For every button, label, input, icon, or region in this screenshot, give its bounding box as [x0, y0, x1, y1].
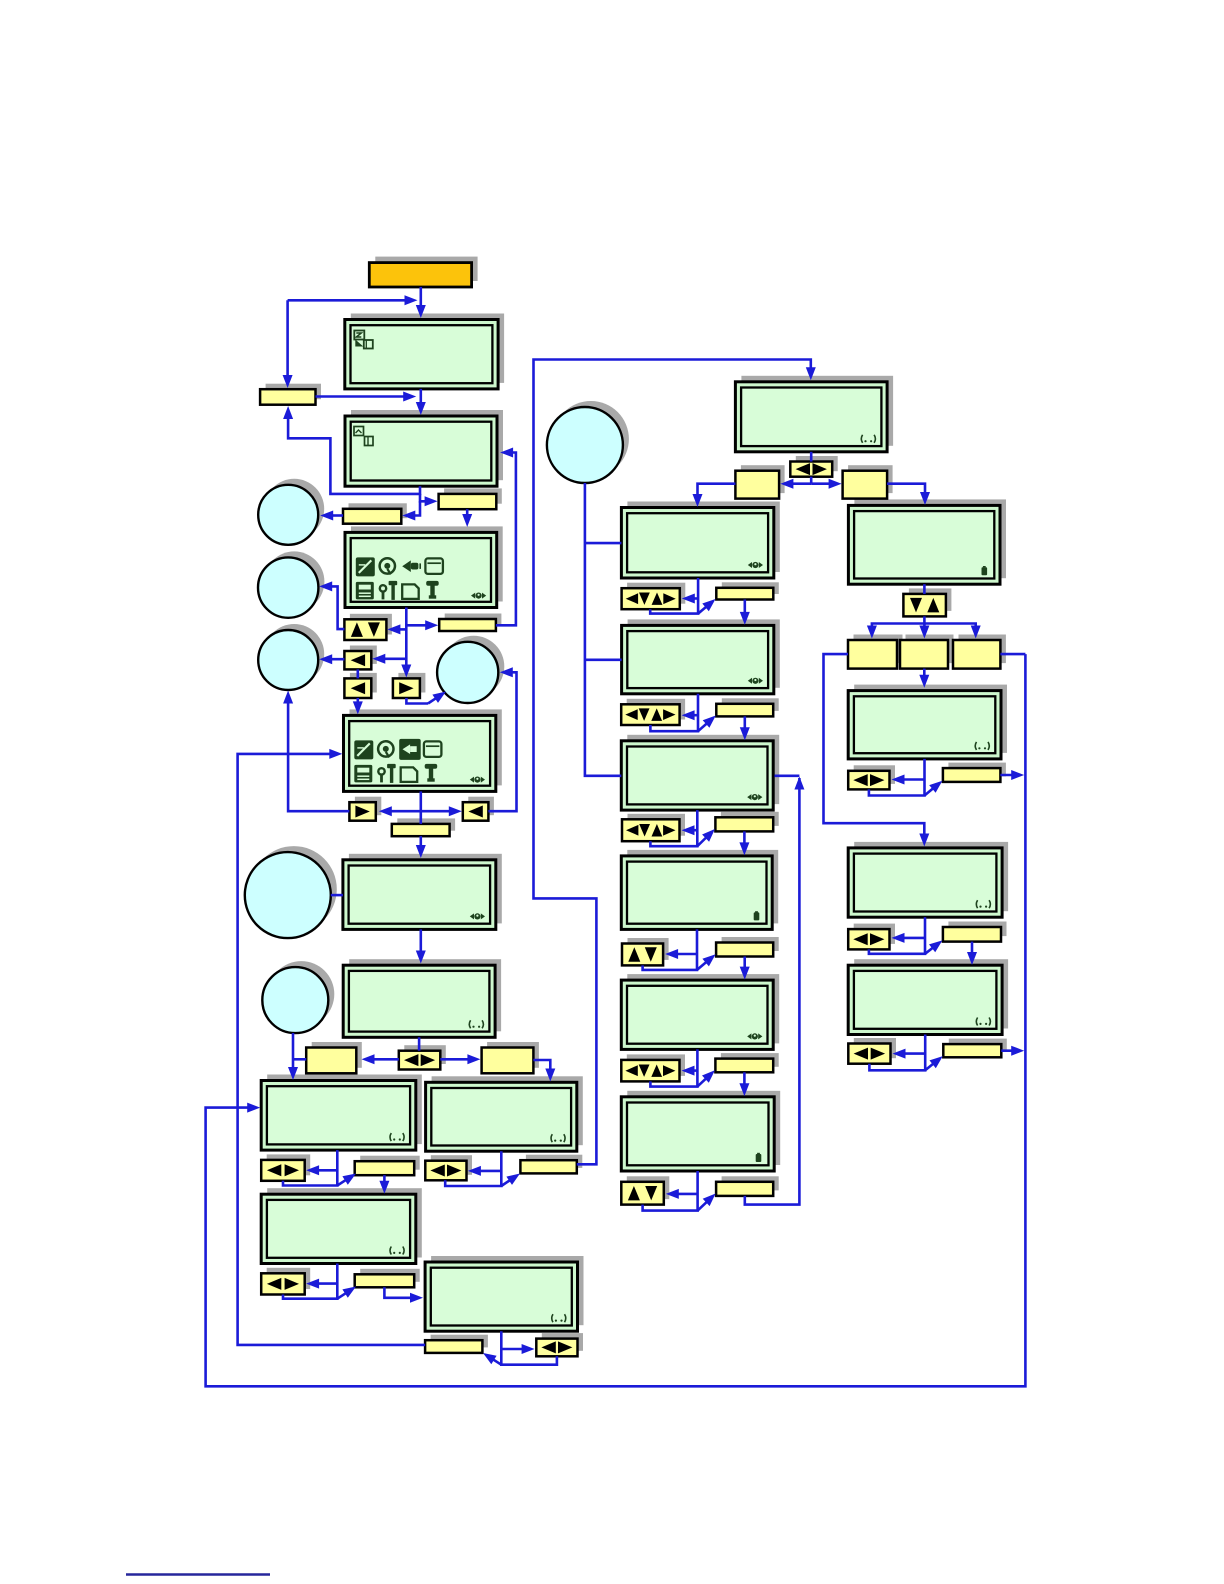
wire G2 down to OK: [419, 791, 422, 824]
button 4way under M1: [622, 583, 686, 610]
wire power-on to T1: [419, 287, 422, 306]
button lr under R4: [848, 1038, 896, 1064]
wire L1b hook down: [445, 1151, 501, 1186]
button box1 under R1: [848, 635, 903, 669]
button left 1: [344, 646, 376, 670]
wire L1b to lr: [474, 1170, 501, 1173]
wire box1R loop to R3: [824, 654, 925, 840]
wire corner down to button TL: [286, 300, 289, 376]
power-on box: [369, 257, 477, 287]
screen M3: [621, 735, 779, 810]
screen L3: [425, 1256, 583, 1331]
button OK under M3: [715, 812, 778, 832]
wire L1b OK loop to screen T: [534, 360, 811, 1165]
wire M5 down: [650, 1049, 697, 1086]
wire left button to circle 4: [488, 672, 516, 811]
wire bottom loop to L1: [206, 654, 1026, 1386]
wire circle B to M screens: [585, 483, 621, 776]
wire L1 to lr: [313, 1169, 337, 1172]
button lr under L3: [536, 1333, 583, 1356]
button box1 under B: [306, 1042, 362, 1073]
wire right button 1 hook to circle 4: [406, 698, 428, 704]
button down-up under R1: [903, 588, 951, 616]
button OK under L1b: [520, 1155, 582, 1174]
wire box2R to R2: [923, 669, 926, 679]
wire R3 OK to R4: [971, 942, 974, 958]
wire M3 OK to M4: [743, 831, 746, 848]
wire T2 junction to right box: [420, 494, 430, 501]
wire R2 OK to loop: [1000, 774, 1017, 777]
button OK under R2: [943, 763, 1006, 782]
wire L2 OK to L3: [384, 1287, 415, 1298]
button OK under G1: [439, 614, 501, 632]
wire M2 diag: [698, 723, 707, 731]
wire circle 6 to L1: [292, 1033, 295, 1073]
button lr under T: [790, 456, 837, 477]
wire L2 diag: [337, 1293, 346, 1299]
button OK under M5: [715, 1053, 778, 1072]
button box3 under R1: [953, 635, 1006, 669]
wire T box left to M1: [698, 484, 736, 500]
wire R1 du split: [872, 616, 925, 630]
screen R2: [848, 685, 1007, 759]
button left under G2: [463, 797, 494, 821]
wire M4 diag: [697, 962, 707, 970]
wire R4 OK to loop: [1001, 1049, 1017, 1052]
button right under G2: [349, 797, 381, 821]
wire M6 down: [643, 1171, 698, 1211]
button 4way under M2: [621, 699, 685, 725]
button OK under R4: [943, 1039, 1007, 1058]
wire circle B branch M1: [585, 542, 622, 545]
circle 2: [258, 551, 324, 617]
screen R3: [848, 842, 1008, 917]
wire R3 down: [869, 917, 925, 954]
button TL (C-key): [260, 384, 321, 405]
screen L1b: [426, 1076, 583, 1151]
wire L3 diag: [493, 1359, 502, 1365]
wire G2 OK to screen A: [419, 836, 422, 849]
wire right box to G1: [466, 509, 469, 519]
wire G2 to right button: [385, 810, 421, 813]
wire M5 to button: [689, 1069, 698, 1072]
circle 5 (large): [245, 846, 337, 938]
wire M2 OK to M3: [743, 716, 746, 732]
button OK under L3: [425, 1335, 488, 1353]
wire G1 to up-down button: [394, 628, 406, 631]
wire M1 down: [650, 578, 698, 614]
wire box1 to circle6 line: [293, 1058, 306, 1061]
wire L1b diag: [501, 1180, 510, 1186]
wire return corner to T1 line: [288, 299, 411, 302]
screen M4: [621, 850, 778, 930]
wire lr to box2: [440, 1058, 473, 1061]
wire A to B: [419, 929, 422, 954]
wire left button 1 to circle 3: [327, 658, 344, 661]
screen M5: [621, 974, 779, 1049]
wire R1 down to du: [923, 584, 926, 594]
screen T1 (startup): [345, 314, 504, 389]
wire L3 to lr: [501, 1348, 528, 1351]
wire circle B branch M2: [585, 658, 622, 661]
wire G1 down: [405, 608, 408, 671]
wire L1 hook down: [283, 1150, 337, 1185]
wire M4 OK to M5: [743, 957, 746, 973]
wire circle 5 to screen A: [331, 894, 343, 897]
wire M6 loop into M3: [775, 774, 800, 777]
wire R4 down: [869, 1035, 925, 1071]
wire M6 to button: [673, 1193, 698, 1196]
wire L2 hook down: [283, 1264, 337, 1299]
footnote rule: [126, 1573, 270, 1575]
wire M4 to button: [672, 953, 697, 956]
button OK under M1: [716, 582, 779, 599]
wire M1 diag: [698, 606, 707, 613]
wire T down to lr: [810, 452, 813, 462]
wire L1 diag: [337, 1180, 346, 1186]
wire T box right to R1: [887, 484, 925, 499]
wire G1 to left button 1: [379, 657, 406, 660]
wire T1 to T2: [419, 389, 422, 403]
wire L3 OK long loop to G2: [238, 754, 426, 1345]
wire R2 down: [869, 759, 925, 796]
wire left buttons join: [356, 669, 359, 678]
button OK under L2: [355, 1269, 420, 1288]
wire M3 down: [650, 810, 697, 846]
wire M3 diag: [697, 837, 706, 846]
wire R1 split right: [924, 624, 975, 631]
button OK under R3: [943, 922, 1007, 942]
button box2 under B: [482, 1042, 539, 1073]
circle 1: [258, 479, 324, 545]
button box2 under R1: [900, 635, 954, 669]
wire M5 diag: [697, 1078, 706, 1087]
button up-down under G1: [344, 614, 392, 640]
button 4way under M3: [622, 814, 685, 841]
wire M4 down: [643, 929, 697, 970]
wire M2 to button: [689, 714, 698, 717]
button left 2: [344, 673, 376, 698]
wire G1 to OK box: [406, 624, 431, 627]
screen M6: [621, 1091, 780, 1171]
wire T split right: [811, 482, 835, 485]
wire R4 diag: [925, 1063, 934, 1070]
screen G1 (menu icon grid): [345, 526, 503, 607]
screen L2: [261, 1188, 422, 1263]
wire left button 2 to G2: [356, 698, 359, 707]
screen B (submenu): [343, 959, 501, 1037]
wire R3 diag: [925, 947, 933, 953]
circle 6: [262, 961, 334, 1033]
wire G2 to left button: [421, 810, 455, 813]
wire T lr split: [810, 477, 813, 484]
button OK under L1: [355, 1156, 420, 1176]
wire up-down to circle 2: [327, 586, 344, 629]
wire right button to circle 3: [288, 698, 349, 811]
wire R4 to button: [900, 1052, 926, 1055]
button OK under M6: [716, 1176, 779, 1196]
button 4way under M5: [621, 1054, 685, 1081]
wire R2 diag: [925, 788, 934, 796]
wire T2 junction to left box: [410, 501, 420, 515]
button lr under R3: [848, 924, 895, 950]
wire hook diag to circle 4: [428, 698, 436, 704]
wire lr to box1: [368, 1058, 399, 1061]
wire M2 down: [650, 694, 698, 731]
button up-down under M4: [622, 938, 669, 965]
screen G2 (menu icon grid, item selected): [344, 709, 502, 791]
button under T2 right (OK): [439, 488, 502, 509]
wire B down to lr: [418, 1037, 421, 1050]
wire T2 stair up to button TL: [288, 417, 420, 494]
screen M1: [621, 502, 779, 579]
wire R3 to button: [899, 937, 926, 940]
screen A (submenu): [343, 854, 502, 930]
button OK under M2: [716, 698, 778, 716]
screen M2: [622, 619, 780, 693]
screen L1: [261, 1075, 422, 1151]
wire R2 to button: [899, 778, 925, 781]
wire left box to circle 1: [327, 514, 343, 517]
wire R1 split mid: [923, 624, 926, 631]
wire M1 to button: [689, 597, 698, 600]
wire button TL to T1-T2 line: [316, 395, 411, 398]
wire T split left: [787, 482, 811, 485]
wire M6 diag: [698, 1201, 708, 1210]
screen T2 (idle): [345, 410, 503, 486]
screen T (settings root): [735, 376, 893, 452]
button lr under B: [399, 1045, 446, 1069]
wire M3 to button: [689, 829, 698, 832]
circle 4: [437, 636, 504, 703]
wire L1 OK to L2: [383, 1175, 386, 1186]
button lr under L2: [261, 1268, 310, 1295]
button OK under G2: [392, 818, 455, 836]
button up-down under M6: [621, 1176, 669, 1204]
screen R4: [848, 959, 1008, 1034]
button box right under T: [843, 465, 893, 498]
circle 3: [258, 624, 324, 690]
circle B (large): [547, 401, 629, 483]
button lr under L1b: [425, 1155, 472, 1180]
wire box2 to L1b: [533, 1060, 550, 1074]
button under T2 left: [343, 503, 407, 523]
button OK under M4: [716, 937, 779, 957]
button box left under T: [735, 465, 784, 498]
button lr under R2: [848, 765, 895, 789]
wire M6 OK loop to M3: [745, 778, 800, 1205]
wire G1 OK up to T2: [496, 453, 516, 626]
button lr under L1: [261, 1154, 310, 1180]
wire box3R to bottom loop: [1000, 653, 1025, 656]
wire M5 OK to M6: [743, 1072, 746, 1089]
button right 1: [393, 673, 426, 698]
wire M1 OK to M2: [743, 600, 746, 618]
wire L2 to lr: [313, 1282, 337, 1285]
wire L3 hook down: [501, 1331, 557, 1365]
screen R1: [848, 499, 1006, 584]
